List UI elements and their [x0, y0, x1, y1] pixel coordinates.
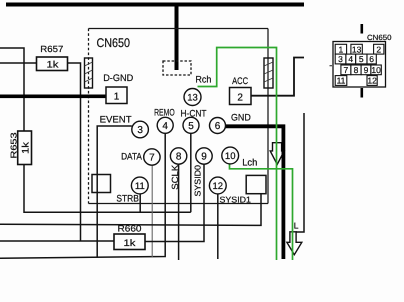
svg-text:13: 13	[187, 93, 198, 104]
wire pin 5 H-CNT drop to L1	[190, 134, 192, 213]
svg-text:11: 11	[135, 181, 145, 192]
wire L3 bus from left to R660	[0, 240, 114, 242]
pin 12 circle SYSID1	[209, 177, 226, 194]
svg-text:2: 2	[237, 93, 243, 104]
svg-text:12: 12	[367, 76, 377, 86]
pin 13 circle	[184, 89, 201, 106]
table cell 11	[335, 76, 347, 86]
svg-text:DATA: DATA	[121, 152, 142, 163]
svg-text:2: 2	[376, 44, 381, 54]
table cell 4	[346, 54, 356, 64]
pin 1 box D-GND	[106, 87, 127, 104]
wire L2 bus to SYSID1 mate box	[0, 194, 261, 226]
svg-text:CN650: CN650	[367, 33, 392, 42]
resistor R653	[9, 131, 32, 165]
svg-text:6: 6	[369, 54, 374, 64]
svg-text:1k: 1k	[124, 238, 136, 249]
svg-text:13: 13	[352, 44, 362, 54]
svg-text:1: 1	[339, 44, 344, 54]
wire green Lch from pin 10 down, right, down	[230, 164, 293, 260]
pin box on EVENT wire (left edge)	[92, 175, 111, 193]
wire ACC from pin 2 right, up, right stub	[251, 58, 304, 96]
table cell 8	[351, 65, 361, 75]
svg-text:GND: GND	[231, 113, 251, 124]
resistor R657	[37, 44, 68, 71]
wire left stub to R657	[0, 62, 37, 64]
table cell 3	[335, 54, 346, 64]
svg-text:D-GND: D-GND	[103, 73, 133, 84]
table bottom dash	[361, 88, 364, 98]
svg-text:Lch: Lch	[242, 158, 257, 169]
svg-text:STRB: STRB	[116, 194, 138, 205]
svg-text:EVENT: EVENT	[100, 115, 132, 126]
svg-text:7: 7	[344, 65, 349, 75]
table cell 7	[341, 65, 351, 75]
pin 10 circle Lch	[222, 147, 239, 164]
svg-text:9: 9	[364, 65, 369, 75]
svg-text:8: 8	[354, 65, 359, 75]
svg-text:R657: R657	[40, 44, 63, 54]
table cell 12	[367, 76, 377, 86]
table cell 2	[374, 44, 384, 54]
wire pin 3 EVENT left and down to L4	[97, 126, 132, 258]
svg-text:CN650: CN650	[97, 36, 131, 50]
wire R657 right, down to L3	[68, 63, 81, 241]
svg-text:L: L	[294, 221, 299, 231]
svg-text:SYSID0: SYSID0	[192, 165, 202, 197]
table cell 1	[335, 44, 346, 54]
svg-text:11: 11	[337, 76, 346, 86]
pin 3 circle EVENT	[132, 121, 149, 138]
wire thick D-GND bus to pin 1	[0, 95, 106, 99]
pin 6 circle GND	[210, 118, 226, 134]
svg-text:Rch: Rch	[195, 75, 211, 86]
svg-text:4: 4	[162, 121, 168, 132]
pin 9 circle SYSID0	[196, 148, 212, 164]
resistor R660	[114, 224, 145, 250]
wire STRB bus L1 (R653 bottom, down, right to pin5 drop)	[24, 165, 191, 213]
pin map table CN650	[333, 24, 392, 98]
pin 5 circle H-CNT	[183, 117, 199, 133]
connector CN650 body outline	[89, 29, 269, 204]
svg-text:SYSID1: SYSID1	[220, 195, 252, 205]
svg-text:3: 3	[137, 125, 143, 136]
svg-text:1: 1	[114, 92, 120, 103]
svg-text:R653: R653	[9, 132, 19, 158]
svg-text:SCLK: SCLK	[170, 165, 180, 190]
svg-text:10: 10	[225, 151, 236, 162]
svg-text:3: 3	[338, 54, 343, 64]
svg-text:ACC: ACC	[232, 76, 248, 87]
table cell 6	[367, 54, 376, 64]
wire dangling vertical near right (to Lch arrow)	[296, 113, 304, 232]
pin 4 circle REMO	[157, 117, 173, 133]
svg-text:1k: 1k	[47, 60, 59, 71]
connector CN650 shell pad (dashed rectangle)	[163, 61, 191, 75]
wire pin 7 DATA drop (light) to L4	[151, 157, 153, 257]
svg-text:7: 7	[149, 153, 155, 164]
svg-text:H-CNT: H-CNT	[181, 109, 207, 120]
pin box right of pin 12 (SYSID1 mate)	[246, 175, 266, 193]
svg-text:10: 10	[371, 65, 381, 75]
pin 8 circle SCLK	[170, 148, 186, 164]
wire pin 4 REMO drop joining L4	[0, 133, 165, 258]
wire pin 8 SCLK drop (dangling)	[178, 156, 180, 260]
wire green Rch from pin 13 up over and down	[198, 48, 277, 261]
wire top supply bus (thick)	[6, 3, 304, 7]
table cell 5	[356, 54, 367, 64]
flow arrow on Lch line (hollow, down)	[287, 232, 302, 255]
pin 2 box ACC	[230, 88, 252, 105]
svg-text:12: 12	[213, 181, 224, 192]
wire pin 11 STRB drop to L1	[139, 194, 141, 213]
wire thick stub from bus down to shell pad	[175, 5, 179, 70]
svg-text:5: 5	[188, 121, 194, 132]
wire pin 12 drop (dangling)	[217, 186, 219, 260]
table cell 10	[371, 65, 381, 75]
svg-text:8: 8	[176, 152, 182, 163]
hatched pin block on left shell edge	[85, 58, 93, 88]
svg-text:1k: 1k	[21, 142, 32, 154]
wire left stub to R653 top	[0, 48, 24, 131]
svg-text:6: 6	[215, 121, 221, 132]
table cell 9	[361, 65, 371, 75]
wire pin 9 SYSID0 drop to R660	[145, 156, 204, 242]
table top dash	[361, 24, 364, 34]
pin 7 circle DATA	[144, 149, 160, 165]
svg-text:5: 5	[359, 54, 364, 64]
flow arrow on Rch line (hollow, down)	[270, 143, 284, 165]
wire thick GND from pin 6 right and down	[226, 126, 284, 259]
pin 11 circle STRB	[131, 177, 148, 194]
table outer box	[333, 42, 386, 88]
svg-text:4: 4	[348, 54, 353, 64]
hatched pin block on right shell edge	[264, 58, 273, 88]
svg-text:REMO: REMO	[154, 108, 175, 119]
svg-text:9: 9	[201, 152, 207, 163]
table cell 13	[351, 44, 362, 54]
tick mark left of pin table	[330, 65, 333, 67]
